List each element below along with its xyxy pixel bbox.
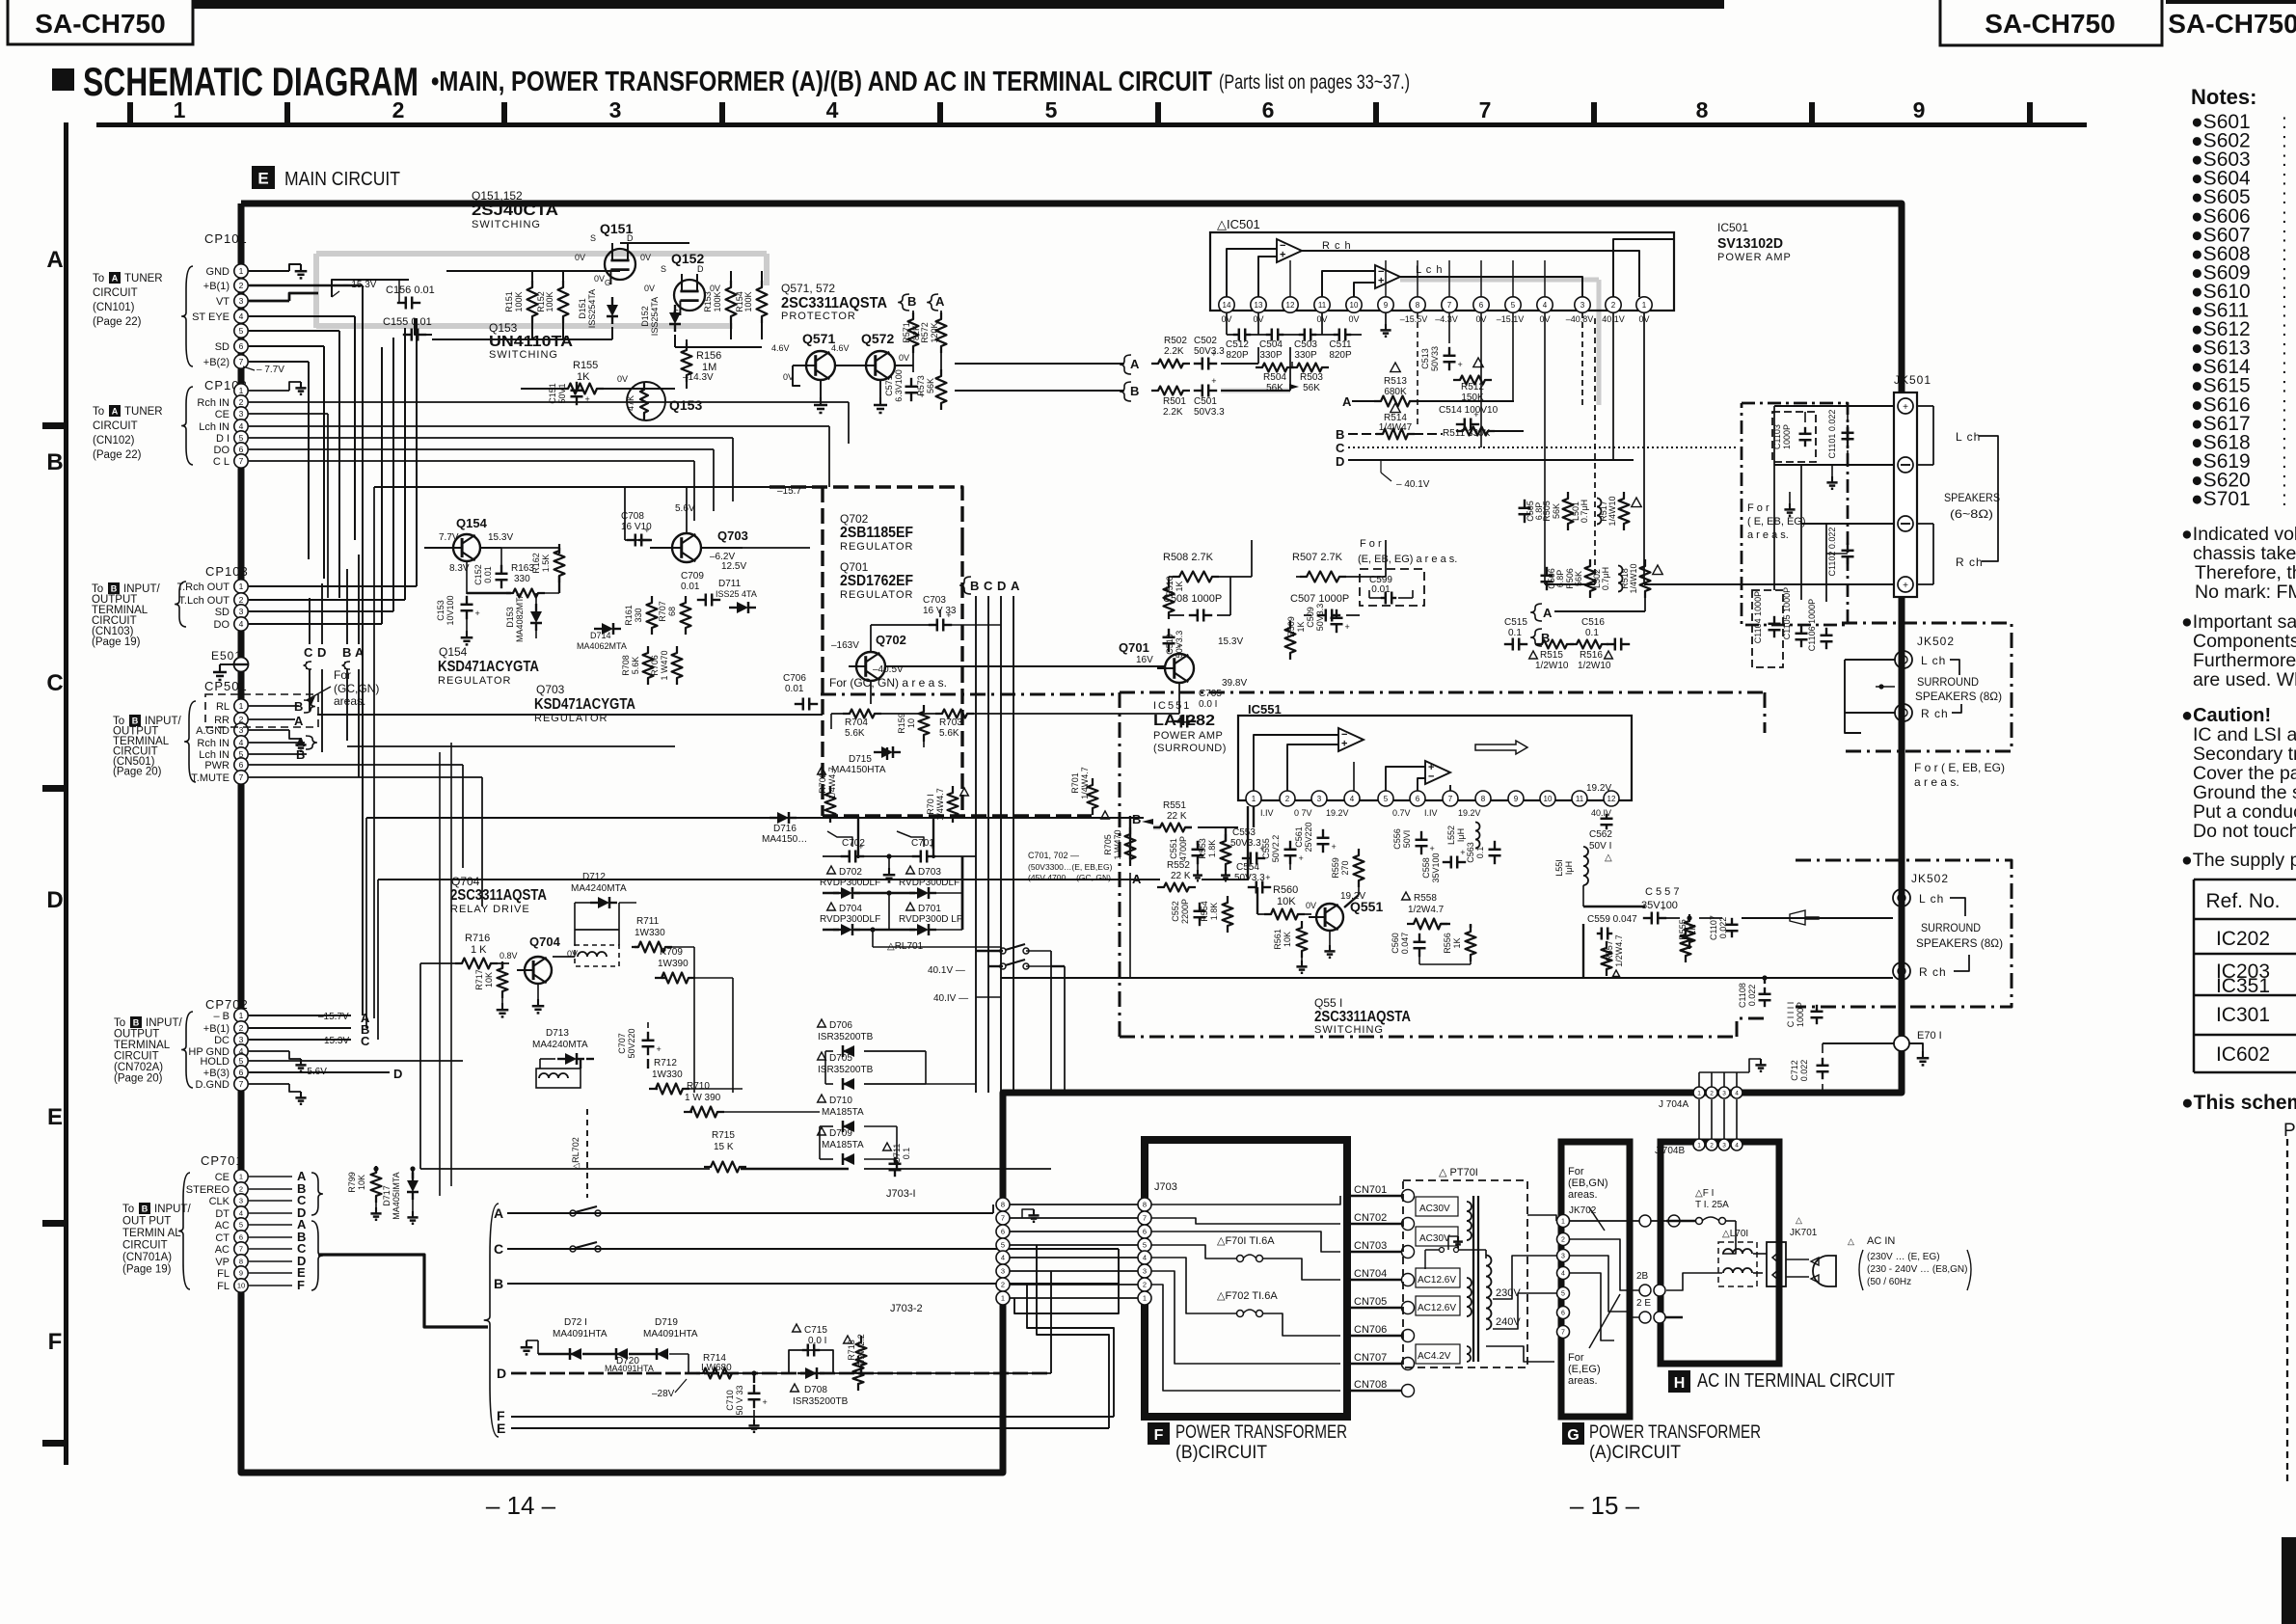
svg-text:A: A (294, 714, 304, 728)
svg-text:1: 1 (239, 1173, 243, 1181)
svg-text:POWER AMP: POWER AMP (1717, 252, 1792, 263)
svg-text:+: + (1332, 842, 1337, 852)
svg-text:SD: SD (215, 607, 230, 618)
wire diode chain D (538, 1353, 569, 1355)
diode D706 ISR35200TB (818, 1019, 826, 1027)
svg-text:9: 9 (1514, 795, 1519, 803)
svg-text:5: 5 (239, 1056, 244, 1066)
svg-text:CE: CE (215, 1172, 230, 1183)
svg-text:REGULATOR: REGULATOR (840, 541, 913, 553)
svg-text:39.8V: 39.8V (1222, 678, 1247, 689)
svg-text:Put a conduct: Put a conduct (2193, 801, 2296, 823)
svg-text:(GC,GN): (GC,GN) (334, 682, 379, 695)
svg-text:A: A (1130, 357, 1140, 371)
svg-text:JK501: JK501 (1894, 373, 1931, 387)
svg-text:1.5K: 1.5K (541, 555, 551, 573)
svg-text:+: + (1299, 853, 1304, 863)
svg-text:+: + (1473, 410, 1478, 420)
wire diode bridge (823, 892, 839, 894)
svg-text:4.6V: 4.6V (831, 343, 850, 353)
svg-text:7: 7 (239, 456, 244, 466)
op-amp IC501 Rch amp (1277, 239, 1302, 262)
svg-text:C153: C153 (436, 600, 446, 621)
svg-text:10K: 10K (357, 1175, 366, 1190)
svg-text:50V3.3: 50V3.3 (1234, 873, 1265, 883)
svg-text:B: B (342, 645, 351, 660)
transformer primary top switch (1440, 1248, 1445, 1253)
svg-text:1 W470: 1 W470 (660, 650, 669, 680)
svg-text:C513: C513 (1420, 348, 1430, 369)
svg-text:0.7μH: 0.7μH (1580, 500, 1589, 523)
svg-text:A: A (1342, 394, 1352, 409)
wire CP102 stubs right (249, 390, 289, 392)
svg-text:Q701: Q701 (840, 560, 869, 574)
section label E MAIN CIRCUIT (252, 166, 275, 189)
svg-text:7: 7 (239, 772, 244, 782)
svg-text:5.6K: 5.6K (631, 657, 640, 675)
wire B C D A vertical buses (975, 596, 977, 1093)
svg-text:C512: C512 (1226, 339, 1249, 350)
svg-text:11: 11 (1576, 795, 1584, 803)
wire 15.3V rail (332, 280, 409, 297)
wire long feeds from CP501 area (317, 714, 823, 716)
svg-text:15 K: 15 K (714, 1142, 734, 1152)
svg-text:C706: C706 (783, 673, 806, 684)
svg-text:CIRCUIT: CIRCUIT (122, 1240, 168, 1252)
svg-text:a r e a s.: a r e a s. (1914, 775, 1959, 789)
svg-text:C: C (361, 1034, 370, 1048)
svg-text:0.01: 0.01 (785, 684, 804, 694)
op-amp IC551 amp2 (1425, 761, 1450, 784)
svg-text:(CN101): (CN101) (93, 302, 135, 313)
svg-text:●This schema: ●This schema (2181, 1092, 2296, 1114)
svg-text:Q151,152: Q151,152 (472, 189, 523, 203)
svg-text:INPUT/: INPUT/ (154, 1204, 192, 1215)
svg-text:SWITCHING: SWITCHING (489, 349, 558, 361)
svg-text:0V: 0V (644, 284, 655, 293)
svg-text:3: 3 (1722, 1090, 1726, 1096)
wire surround feeds upper (1845, 659, 1895, 661)
svg-text:B: B (133, 1017, 140, 1027)
svg-text:2.2K: 2.2K (1163, 407, 1183, 418)
svg-text:Q702: Q702 (876, 633, 906, 647)
svg-text:4: 4 (239, 1209, 243, 1218)
svg-text:0V: 0V (640, 253, 651, 262)
svg-text:6: 6 (239, 341, 244, 351)
wire JK501 feeds (1644, 583, 1894, 585)
svg-text:MA4240MTA: MA4240MTA (571, 883, 627, 894)
svg-text:0V: 0V (594, 274, 605, 284)
svg-text:(CN701A): (CN701A) (122, 1252, 172, 1263)
svg-text:GND: GND (206, 266, 230, 278)
wire JK702 leader lines (1589, 1207, 1605, 1231)
svg-text:5: 5 (239, 433, 244, 443)
svg-text:C516: C516 (1581, 617, 1605, 628)
svg-text:1: 1 (239, 582, 244, 591)
svg-text:C503: C503 (1294, 339, 1317, 350)
svg-text:A: A (1011, 579, 1020, 593)
svg-text:0V: 0V (1348, 314, 1359, 324)
svg-text:AC IN TERMINAL CIRCUIT: AC IN TERMINAL CIRCUIT (1697, 1370, 1895, 1392)
svg-text:R161: R161 (624, 605, 634, 626)
svg-text:POWER TRANSFORMER: POWER TRANSFORMER (1175, 1422, 1347, 1443)
resistor R512 150K (1473, 358, 1483, 367)
svg-text:– 7.7V: – 7.7V (257, 365, 284, 375)
svg-text:△F I: △F I (1695, 1188, 1714, 1199)
ground at J703 pin7 (1022, 1209, 1034, 1218)
svg-text:SCHEMATIC DIAGRAM: SCHEMATIC DIAGRAM (83, 59, 419, 104)
svg-text:R504: R504 (1263, 372, 1286, 383)
svg-text:C710: C710 (725, 1390, 735, 1411)
svg-text:B: B (132, 716, 139, 725)
svg-text:+: + (1345, 622, 1350, 632)
svg-text:D719: D719 (655, 1317, 678, 1328)
svg-text:0.022: 0.022 (1799, 1060, 1809, 1082)
svg-text:D: D (46, 887, 63, 913)
page header: model number box top-left (8, 0, 193, 44)
svg-text:D: D (393, 1067, 402, 1081)
svg-text:F o r: F o r (1747, 502, 1769, 514)
wire B A vertical feeds (912, 311, 914, 318)
svg-text:D701: D701 (918, 904, 941, 914)
svg-text:2: 2 (239, 1023, 244, 1033)
svg-text:L ch: L ch (1921, 654, 1946, 667)
svg-text:5: 5 (1143, 1241, 1147, 1250)
svg-text:4: 4 (239, 738, 244, 747)
svg-text:– 40.1V: – 40.1V (1396, 479, 1430, 490)
svg-text::: : (2282, 488, 2287, 510)
svg-text:R155: R155 (573, 360, 598, 371)
transistor Q551 (1316, 904, 1343, 931)
svg-text:●The supply pa: ●The supply pa (2181, 850, 2296, 871)
resistor R503 56K (1290, 364, 1329, 372)
svg-text:14: 14 (1223, 301, 1231, 310)
main circuit border outline (241, 203, 1902, 1473)
svg-text:(230 - 240V … (E8,GN): (230 - 240V … (E8,GN) (1867, 1264, 1967, 1275)
svg-text:6: 6 (239, 445, 244, 454)
wire regulator internals (885, 665, 1165, 667)
svg-text:10: 10 (1544, 795, 1553, 803)
svg-text:Rch IN: Rch IN (197, 738, 230, 749)
svg-text:HOLD: HOLD (200, 1056, 230, 1068)
svg-text:R573: R573 (916, 375, 926, 396)
svg-text:AC30V: AC30V (1419, 1204, 1450, 1214)
wire Q154 cluster (424, 547, 453, 549)
svg-text:B: B (494, 1276, 503, 1291)
svg-text:CP701: CP701 (201, 1153, 244, 1168)
svg-text:B: B (111, 583, 118, 593)
svg-text:●Important safe: ●Important safe (2181, 611, 2296, 633)
svg-text:0V: 0V (575, 253, 585, 262)
svg-text:10: 10 (237, 1282, 245, 1290)
svg-text:Therefore, the: Therefore, the (2195, 562, 2296, 583)
svg-text:2: 2 (1561, 1237, 1565, 1244)
svg-text:a r e a s.: a r e a s. (1747, 529, 1789, 541)
svg-text:Ground the se: Ground the se (2193, 782, 2296, 803)
svg-text:2SC3311AQSTA: 2SC3311AQSTA (781, 295, 887, 311)
svg-text:7: 7 (1479, 97, 1492, 122)
svg-text:Q154: Q154 (456, 516, 488, 530)
section label F POWER TRANSFORMER (B) CIRCUIT (1148, 1422, 1170, 1445)
svg-text:7: 7 (239, 357, 244, 366)
svg-text:+: + (1661, 904, 1665, 913)
svg-text:0.022: 0.022 (1718, 917, 1728, 939)
svg-text:TERMINAL: TERMINAL (114, 1040, 171, 1051)
svg-text:3: 3 (1143, 1267, 1147, 1276)
svg-text:6: 6 (1416, 795, 1420, 803)
svg-text:1W390: 1W390 (658, 959, 689, 969)
svg-text:R712: R712 (654, 1058, 677, 1069)
capacitor C1104 1000P dashed (1752, 590, 1783, 667)
svg-text:1: 1 (239, 701, 244, 711)
svg-text:C: C (46, 670, 63, 696)
capacitor C599 dashed box (1360, 569, 1424, 606)
svg-text:4: 4 (1350, 795, 1355, 803)
svg-text:TUNER: TUNER (124, 406, 163, 418)
svg-text:To: To (93, 406, 104, 418)
svg-text:L55I: L55I (1554, 859, 1564, 877)
dashed area box E EB EG speakers (1742, 403, 1848, 625)
transformer PT701 dashed box (1403, 1180, 1527, 1367)
svg-text:ST EYE: ST EYE (192, 311, 230, 323)
wire CP702 rows (249, 1015, 351, 1016)
op-amp IC501 Lch amp (1375, 265, 1400, 288)
svg-text:C: C (984, 579, 993, 593)
regulator block dash-dot frame (770, 487, 962, 540)
svg-text:+B(1): +B(1) (203, 1023, 230, 1035)
svg-text:6: 6 (1561, 1311, 1565, 1317)
ground terminal E701 (1894, 1036, 1909, 1051)
wire lower diode group (420, 1168, 710, 1170)
section label H AC IN TERMINAL CIRCUIT (1668, 1370, 1690, 1393)
svg-text:G: G (605, 279, 610, 287)
svg-text:STEREO: STEREO (186, 1184, 230, 1196)
svg-text:C560: C560 (1391, 933, 1400, 954)
svg-text:R507 2.7K: R507 2.7K (1292, 552, 1343, 563)
svg-text:6.8P: 6.8P (1534, 502, 1544, 521)
svg-text:C511: C511 (1329, 339, 1352, 350)
JK501 pin minus 2 (1898, 457, 1913, 473)
svg-text:SWITCHING: SWITCHING (472, 219, 541, 230)
svg-text:16V: 16V (1136, 655, 1153, 665)
svg-text:△F70I TI.6A: △F70I TI.6A (1217, 1235, 1275, 1247)
capacitor C715 0.01 with D708 (793, 1324, 801, 1332)
svg-text:E: E (497, 1421, 505, 1436)
svg-text:△RL701: △RL701 (887, 941, 924, 952)
svg-text:+: + (475, 609, 480, 618)
svg-text:+: + (946, 610, 951, 620)
svg-text:DO: DO (214, 445, 230, 456)
svg-text:1: 1 (1561, 1219, 1565, 1226)
svg-text:S: S (661, 264, 666, 274)
svg-text:4: 4 (239, 421, 244, 431)
svg-text:F: F (1154, 1427, 1164, 1444)
svg-text:TERMIN AL: TERMIN AL (122, 1228, 181, 1239)
svg-text:J703-2: J703-2 (890, 1303, 923, 1314)
svg-text:8: 8 (1696, 97, 1709, 122)
svg-text:INPUT/: INPUT/ (146, 1017, 183, 1029)
svg-text:△RL702: △RL702 (571, 1137, 581, 1169)
transformer secondary coils (1467, 1202, 1472, 1240)
dashed area box surround speakers upper (1842, 623, 2012, 751)
svg-text:−: − (1378, 266, 1384, 278)
svg-text:+B(2): +B(2) (203, 357, 230, 368)
svg-text:SPEAKERS (8Ω): SPEAKERS (8Ω) (1915, 690, 2002, 703)
svg-text:0.022: 0.022 (1747, 985, 1757, 1007)
svg-text:IC602: IC602 (2216, 1043, 2270, 1066)
wire misc verticals to bottom (419, 963, 421, 1169)
svg-text:C562: C562 (1589, 829, 1612, 840)
svg-text:(A)CIRCUIT: (A)CIRCUIT (1589, 1443, 1681, 1463)
svg-text:+B(1): +B(1) (203, 281, 230, 292)
svg-text:R717: R717 (474, 969, 484, 990)
wire relay to bus (1050, 951, 1052, 1093)
svg-text:6: 6 (1479, 301, 1484, 310)
svg-text:4: 4 (1143, 1254, 1147, 1262)
svg-text:MA4091HTA: MA4091HTA (605, 1364, 654, 1373)
svg-text:13: 13 (1255, 301, 1263, 310)
svg-text:CP101: CP101 (204, 231, 248, 246)
svg-text:D.GND: D.GND (196, 1079, 230, 1091)
svg-text:1W330: 1W330 (635, 928, 665, 938)
svg-text:R156: R156 (696, 350, 721, 362)
svg-text:VT: VT (216, 296, 230, 308)
svg-text:Q704: Q704 (451, 875, 480, 888)
svg-text:D: D (627, 233, 634, 243)
wire primary taps to JK702 (1493, 1256, 1556, 1299)
transformer AC30V tap labels (1416, 1197, 1458, 1216)
svg-text:IC551: IC551 (1153, 700, 1191, 712)
svg-text:REGULATOR: REGULATOR (840, 589, 913, 601)
svg-text:4: 4 (826, 97, 839, 122)
resistor R504 56K (1256, 364, 1294, 372)
svg-text:56K: 56K (1266, 383, 1283, 393)
svg-text:– 14 –: – 14 – (486, 1491, 556, 1520)
svg-text:C: C (304, 645, 313, 660)
svg-text:MA4091HTA: MA4091HTA (553, 1329, 608, 1340)
svg-text:1: 1 (239, 1011, 244, 1020)
resistor R702 quarter watt (818, 767, 826, 774)
svg-text:1 K: 1 K (471, 944, 487, 956)
svg-text:No mark: FM: No mark: FM (2195, 582, 2296, 603)
svg-text:−: − (1428, 771, 1434, 783)
svg-text:C558: C558 (1421, 857, 1431, 879)
resistor R713 half watt (844, 1336, 852, 1343)
svg-text:B: B (142, 1204, 149, 1213)
svg-text:100K: 100K (713, 291, 722, 311)
svg-text:Q703: Q703 (717, 528, 748, 543)
svg-text:●S701: ●S701 (2191, 488, 2251, 510)
svg-text:56K: 56K (1303, 383, 1320, 393)
node B entry right (1530, 629, 1542, 646)
diode D703 RVDP300DLF (906, 866, 915, 874)
svg-text:7: 7 (1561, 1330, 1565, 1337)
wire R507 block (1296, 576, 1302, 578)
svg-text:5.6V: 5.6V (675, 503, 695, 514)
svg-text:15.3V: 15.3V (1218, 636, 1243, 647)
svg-text:SA-CH750: SA-CH750 (35, 9, 165, 39)
svg-text:F o r: F o r (1360, 538, 1382, 550)
svg-text:0.1: 0.1 (902, 1148, 911, 1160)
svg-text:SWITCHING: SWITCHING (1314, 1024, 1384, 1036)
svg-text:E: E (257, 170, 268, 188)
svg-text:R508 2.7K: R508 2.7K (1163, 552, 1214, 563)
svg-text:△: △ (1605, 853, 1612, 863)
svg-text:VP: VP (215, 1257, 230, 1268)
wire IC501 output loops (1227, 249, 1277, 297)
svg-text:SURROUND: SURROUND (1917, 675, 1979, 689)
svg-text:FL: FL (217, 1281, 230, 1292)
svg-text:C707: C707 (617, 1033, 627, 1054)
svg-text:R153: R153 (703, 291, 713, 312)
svg-text:5: 5 (1561, 1291, 1565, 1298)
svg-text:A: A (355, 645, 365, 660)
svg-text:D708: D708 (804, 1385, 827, 1395)
svg-text:C1101 0.022: C1101 0.022 (1827, 410, 1837, 459)
svg-text:5: 5 (1511, 301, 1516, 310)
wire A row to pin13 (1221, 363, 1258, 365)
svg-text:D703: D703 (918, 867, 941, 878)
svg-text:Q572: Q572 (861, 331, 894, 346)
wire B row shaded (1221, 390, 1290, 392)
svg-text:40.1V —: 40.1V — (928, 965, 965, 976)
svg-text:0.047: 0.047 (1400, 933, 1410, 955)
resistor R515 (1529, 651, 1538, 659)
svg-text:0.1: 0.1 (1475, 847, 1485, 859)
diode D705 ISR35200TB (818, 1052, 826, 1060)
svg-text:ISS254TA: ISS254TA (587, 289, 597, 328)
svg-text:LA4282: LA4282 (1153, 713, 1215, 729)
svg-text:chassis taken: chassis taken (2193, 543, 2296, 564)
svg-text:SURROUND: SURROUND (1921, 921, 1981, 934)
svg-text:D705: D705 (829, 1053, 852, 1064)
svg-text:IμH: IμH (1456, 828, 1466, 842)
svg-text:1/4W10: 1/4W10 (1607, 496, 1617, 526)
wire vertical bundle from CP101 (362, 285, 364, 1015)
svg-text:D717: D717 (382, 1185, 392, 1206)
svg-text:2: 2 (392, 97, 405, 122)
node B brace to power amp (1120, 382, 1131, 401)
svg-text:TUNER: TUNER (124, 273, 163, 284)
svg-text:47K: 47K (626, 395, 635, 411)
svg-text:Notes:: Notes: (2191, 85, 2256, 109)
capacitor C1103 1000P dashed (1772, 412, 1816, 462)
svg-text:A: A (1543, 606, 1553, 620)
svg-text:SV13102D: SV13102D (1717, 235, 1783, 252)
page edge dashed line right (2286, 1139, 2288, 1482)
svg-text:Q154: Q154 (439, 645, 468, 659)
svg-text:T.Rch OUT: T.Rch OUT (177, 582, 230, 593)
svg-text:AC12.6V: AC12.6V (1418, 1275, 1456, 1286)
svg-text:Secondary tro: Secondary tro (2193, 744, 2296, 765)
svg-text:1/2W10: 1/2W10 (1578, 661, 1611, 671)
ground above J704 (1699, 1071, 1749, 1073)
svg-text:C571: C571 (884, 375, 894, 396)
svg-text:ISS254TA: ISS254TA (650, 297, 660, 336)
svg-text:C I I I I: C I I I I (1786, 1002, 1796, 1028)
svg-text:7: 7 (1143, 1214, 1147, 1223)
svg-text:C515: C515 (1504, 617, 1527, 628)
svg-text:E: E (47, 1104, 63, 1130)
svg-text:CN703: CN703 (1354, 1240, 1387, 1252)
svg-text:R151: R151 (504, 291, 514, 312)
wire Q703 to regulator top (686, 487, 688, 533)
svg-text:KSD471ACYGTA: KSD471ACYGTA (438, 659, 539, 675)
svg-text:330: 330 (514, 574, 530, 584)
svg-text:50V3.3: 50V3.3 (1230, 838, 1261, 849)
svg-text:R701: R701 (1070, 772, 1080, 794)
svg-text:△F702 TI.6A: △F702 TI.6A (1217, 1290, 1278, 1302)
